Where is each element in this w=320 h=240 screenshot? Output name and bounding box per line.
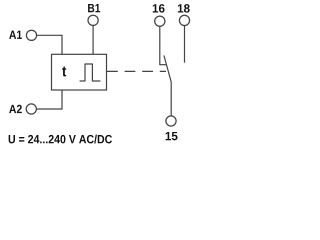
terminal 18 — [179, 15, 189, 25]
terminal A1 — [26, 30, 36, 40]
wire 16 down — [159, 27, 161, 66]
value label t — [62, 67, 66, 77]
timer function block — [52, 54, 107, 90]
dashed actuation link — [107, 70, 166, 72]
wire 18 down — [184, 26, 186, 63]
terminal label B1 — [88, 4, 100, 12]
terminal 16 — [155, 16, 165, 26]
pulse waveform icon — [80, 64, 101, 81]
terminal label 15 — [166, 132, 178, 140]
wire B1 to box — [92, 26, 94, 55]
terminal label 18 — [178, 4, 190, 13]
terminal A2 — [26, 104, 36, 114]
terminal label 16 — [153, 4, 165, 13]
supply voltage label — [9, 135, 112, 144]
terminal 15 — [166, 116, 176, 126]
wire A1 to box — [37, 35, 62, 54]
contact seat 16 — [160, 64, 167, 66]
terminal label A2 — [9, 105, 22, 113]
changeover contact lever — [164, 55, 171, 115]
terminal B1 — [88, 15, 98, 25]
wire A2 to box — [37, 90, 62, 109]
terminal label A1 — [9, 31, 22, 39]
